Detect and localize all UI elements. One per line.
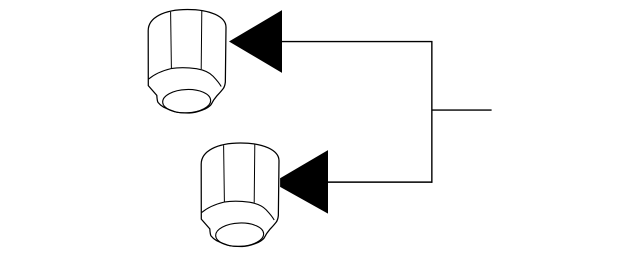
wire: middle stub to the right	[432, 109, 492, 111]
nut 2 shoulder arc	[202, 201, 275, 220]
lug nut 1 (upper left)	[148, 9, 226, 113]
nut 1 right facet line	[200, 10, 203, 69]
arrow 2 (callout arrowhead pointing to nut 2, tip clipped at nut edge)	[280, 150, 328, 214]
nut 1 outer silhouette	[148, 9, 226, 113]
nut 2 right facet line	[253, 144, 256, 203]
wire: top horizontal leader from arrow 1	[282, 41, 433, 43]
nut 1 left facet line	[170, 12, 173, 69]
nut 1 shoulder arc	[149, 68, 222, 87]
wire: vertical leader	[431, 41, 433, 183]
wire: bottom horizontal leader from arrow 2	[328, 181, 433, 183]
lug nut 2 (lower)	[201, 143, 279, 247]
nut 2 outer silhouette	[201, 143, 279, 247]
nut 2 opening ellipse	[215, 222, 264, 247]
arrow 1 (callout arrowhead pointing to nut 1)	[229, 10, 282, 73]
nut 2 left facet line	[223, 145, 226, 202]
nut 1 opening ellipse	[162, 89, 211, 114]
